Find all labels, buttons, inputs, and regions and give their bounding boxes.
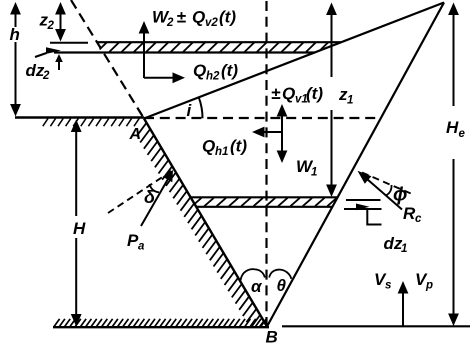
svg-text:Q: Q bbox=[192, 8, 205, 27]
svg-text:A: A bbox=[129, 126, 142, 143]
svg-text:p: p bbox=[425, 280, 433, 292]
Pa arrow bbox=[141, 170, 173, 226]
z1 dimension arrow bbox=[326, 3, 337, 198]
svg-text:s: s bbox=[385, 280, 391, 292]
thin slice strip 1 (lower, hatched) bbox=[191, 197, 338, 207]
thin slice strip 2 (upper, hatched) bbox=[50, 42, 342, 52]
svg-text:h1: h1 bbox=[215, 146, 228, 158]
wall face A-B bbox=[144, 119, 267, 327]
svg-text:H: H bbox=[73, 219, 86, 238]
svg-text:1: 1 bbox=[401, 243, 407, 255]
dz2 small up arrow bbox=[55, 54, 63, 70]
svg-text:h2: h2 bbox=[206, 71, 220, 83]
svg-text:±: ± bbox=[271, 84, 281, 103]
dz1 slice marker lines bbox=[344, 200, 382, 225]
svg-text:dz: dz bbox=[26, 61, 45, 80]
wall face hatch band bbox=[137, 123, 264, 335]
svg-text:v2: v2 bbox=[205, 17, 218, 29]
Qh1 arrow bbox=[252, 127, 282, 138]
svg-text:Q: Q bbox=[282, 84, 295, 103]
angle phi arc bbox=[386, 185, 392, 196]
Qh2 arrow bbox=[144, 72, 185, 83]
svg-text:H: H bbox=[446, 118, 459, 137]
bottom ground hatch bbox=[54, 319, 266, 327]
bottom ground line bbox=[53, 326, 269, 328]
backfill slope line A-apex bbox=[144, 3, 444, 119]
svg-text:δ: δ bbox=[144, 187, 156, 207]
He dimension arrow bbox=[448, 3, 459, 327]
plane normal dashed (phi) bbox=[362, 173, 412, 195]
svg-text:(t): (t) bbox=[230, 137, 247, 156]
svg-text:2: 2 bbox=[166, 17, 174, 29]
failure plane B-apex bbox=[267, 3, 444, 327]
svg-text:2: 2 bbox=[47, 20, 55, 32]
svg-text:2: 2 bbox=[42, 70, 50, 82]
svg-text:Q: Q bbox=[202, 137, 215, 156]
svg-text:dz: dz bbox=[384, 234, 403, 253]
svg-text:B: B bbox=[266, 328, 278, 347]
Rc arrow bbox=[358, 171, 403, 210]
svg-text:1: 1 bbox=[347, 95, 353, 107]
V arrow bbox=[398, 281, 409, 326]
wall normal dashed (delta) bbox=[108, 170, 173, 213]
svg-text:a: a bbox=[138, 241, 145, 253]
upper ground hatch bbox=[43, 118, 139, 126]
+-Qv1 double arrow bbox=[277, 104, 288, 163]
svg-text:ϕ: ϕ bbox=[393, 185, 407, 206]
svg-text:(t): (t) bbox=[221, 61, 238, 80]
dz2 solid pointer bbox=[35, 47, 61, 57]
svg-text:e: e bbox=[459, 128, 466, 140]
dashed vertical line through B bbox=[265, 1, 267, 327]
svg-text:θ: θ bbox=[277, 276, 287, 295]
svg-text:Q: Q bbox=[193, 61, 206, 80]
z2 dimension arrow bbox=[55, 2, 66, 42]
angle i arc bbox=[199, 97, 203, 118]
dashed backfill boundary line (top to A) bbox=[71, 0, 144, 119]
svg-text:(t): (t) bbox=[219, 8, 236, 27]
svg-text:c: c bbox=[415, 213, 422, 225]
svg-text:1: 1 bbox=[311, 167, 317, 179]
svg-text:h: h bbox=[10, 25, 20, 44]
angle theta arc bbox=[269, 270, 291, 279]
h dimension arrow bbox=[10, 2, 21, 117]
H dimension arrow bbox=[71, 120, 82, 327]
svg-text:±: ± bbox=[177, 8, 187, 27]
svg-text:α: α bbox=[251, 277, 263, 296]
svg-text:(t): (t) bbox=[306, 84, 323, 103]
W2 arrow bbox=[139, 21, 150, 78]
angle alpha arc bbox=[241, 269, 265, 280]
upper ground line bbox=[15, 116, 144, 118]
angle delta arc bbox=[150, 184, 160, 192]
dashed horizontal line at A level bbox=[144, 117, 381, 119]
